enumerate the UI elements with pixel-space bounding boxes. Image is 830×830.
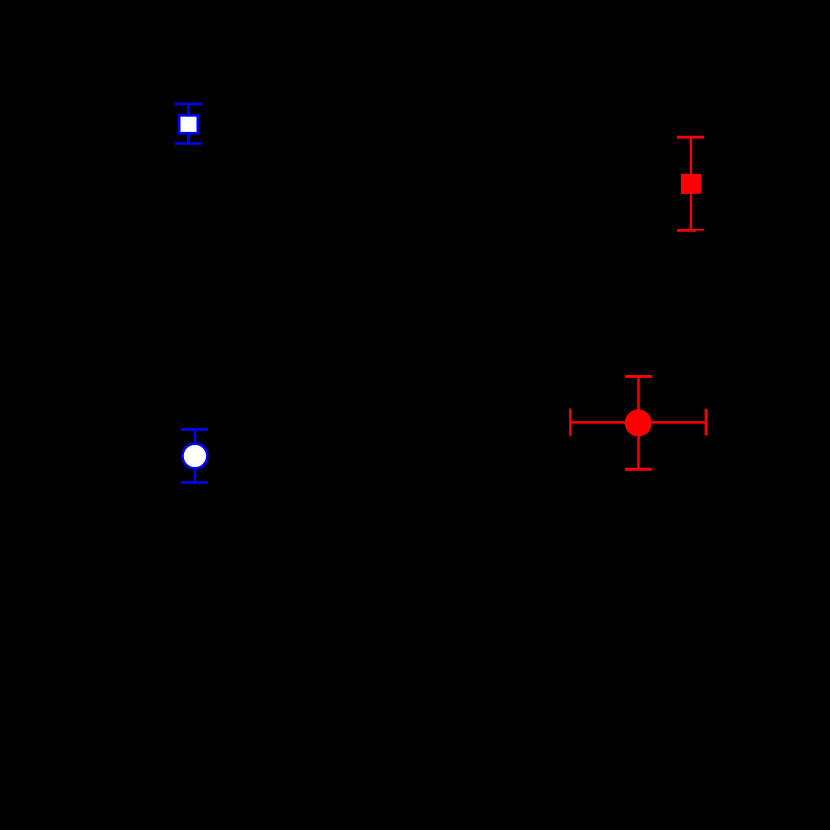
bottom cap right segment [695,229,704,231]
bottom cap [625,468,652,471]
wire: vertical error bar line [637,376,639,469]
top cap [175,103,202,105]
wire: vertical error bar line [187,104,190,144]
blue data point 1: open square with vertical error bar [175,104,202,144]
top cap [625,375,652,378]
open square marker [179,115,198,133]
wire: vertical error bar line [690,137,692,230]
bottom cap left segment [677,229,696,232]
filled square marker [681,174,701,194]
top cap [181,428,208,431]
bottom cap [175,142,202,144]
filled circle marker [625,409,652,436]
wire: vertical error bar line [194,429,196,482]
red data point 4: filled circle with vertical and horizontal error bars [570,376,706,469]
right cap [705,409,708,436]
top cap [677,136,704,139]
bottom cap [181,481,208,484]
open circle marker [182,444,207,469]
red data point 3: filled square with vertical error bar [677,137,704,230]
wire: horizontal error bar line [570,421,706,424]
blue data point 2: open circle with vertical error bar [181,429,208,482]
left cap [569,409,571,436]
